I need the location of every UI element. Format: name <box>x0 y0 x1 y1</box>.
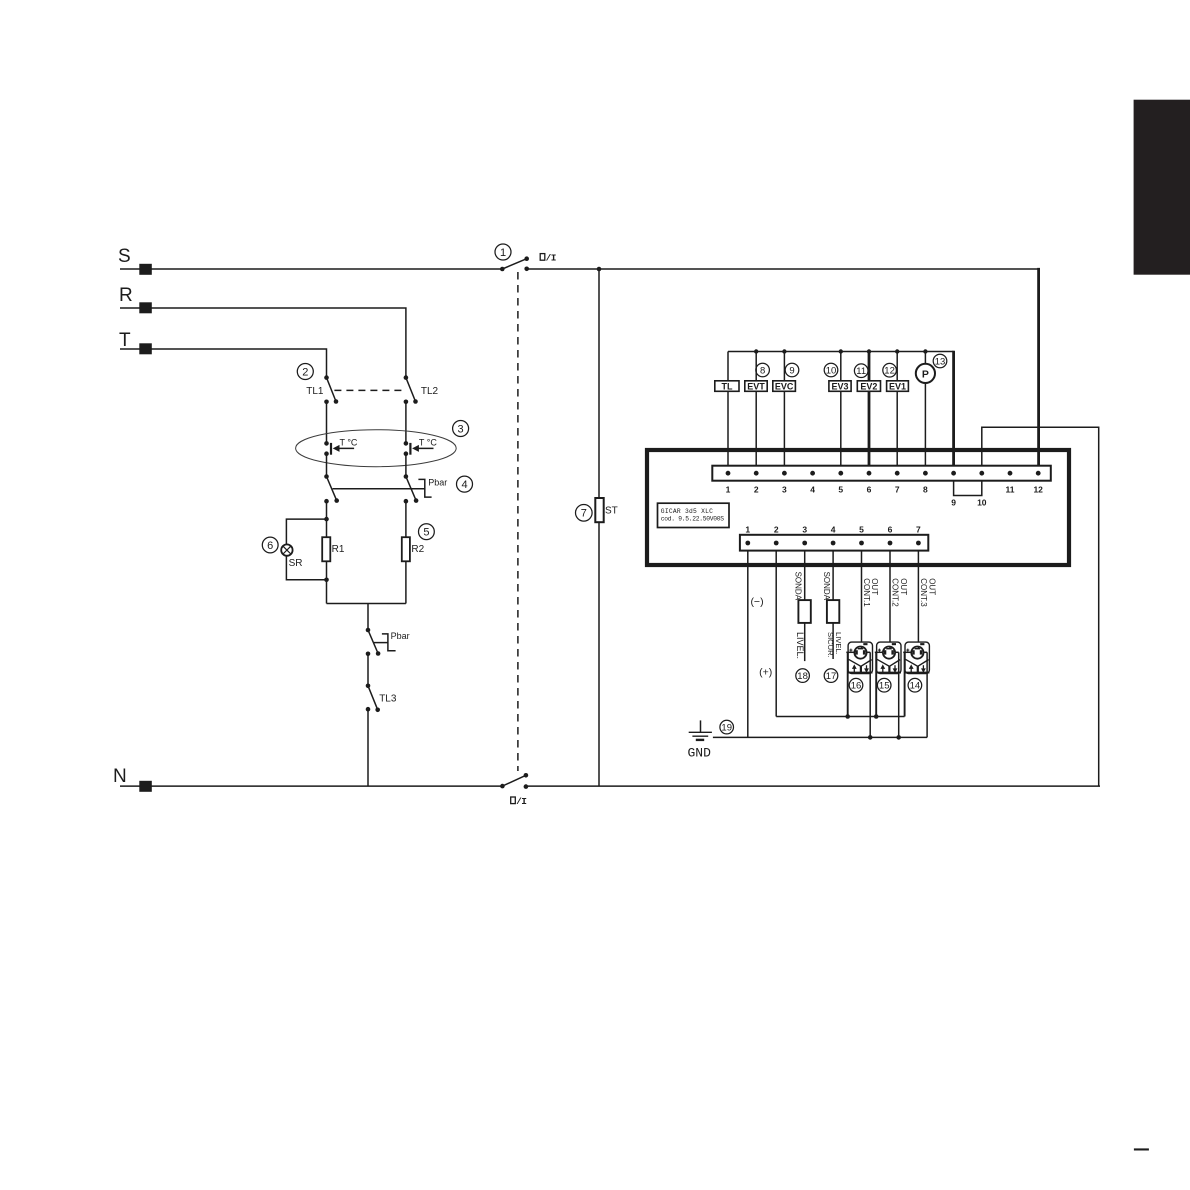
jumper terminals 9-10 <box>954 481 982 496</box>
wire bus end to terminal 9 (bold) <box>952 351 955 466</box>
junction SR tap <box>324 517 329 522</box>
svg-text:6: 6 <box>267 540 273 552</box>
svg-text:GND: GND <box>688 746 712 761</box>
svg-text:1: 1 <box>500 247 506 259</box>
wire valve16 left lead <box>847 652 849 716</box>
switch 0/I top (main switch) <box>500 256 529 271</box>
svg-text:16: 16 <box>851 681 862 692</box>
svg-text:/I: /I <box>516 796 526 807</box>
label LIVEL (rotated) <box>795 632 805 659</box>
label SR <box>289 558 303 569</box>
switch TL3 <box>366 684 380 713</box>
svg-text:3: 3 <box>802 525 807 535</box>
node N <box>113 766 127 787</box>
callout 11 <box>854 364 868 378</box>
callout 6 <box>262 537 278 553</box>
switch Pbar right pole <box>404 474 419 503</box>
wire top bus <box>728 351 954 353</box>
label SONDA 2 (rotated) <box>822 572 831 601</box>
callout 15 <box>877 678 891 692</box>
terminal square S <box>139 264 152 275</box>
svg-text:4: 4 <box>810 485 815 495</box>
component EVC <box>773 381 796 392</box>
callout 8 <box>756 363 770 377</box>
wire SR branch top <box>286 519 326 544</box>
junction EV2 bus <box>867 349 871 353</box>
callout 7 <box>576 505 593 522</box>
wire center tap down <box>367 604 369 631</box>
wire S rail after switch <box>527 268 1039 270</box>
callout 12 <box>883 363 897 377</box>
svg-text:19: 19 <box>721 723 732 734</box>
wire R1 to bottom bus <box>326 561 328 603</box>
wire TL1 to thermostat <box>326 402 328 444</box>
callout 2 <box>297 364 313 380</box>
wire S rail to terminal 12 (bold drop) <box>1037 268 1040 466</box>
component EV3 <box>829 381 851 392</box>
svg-text:14: 14 <box>910 681 921 692</box>
wire EV2 drop (bold) <box>868 352 871 466</box>
wire thermostat left to Pbar <box>326 454 328 477</box>
wire valve14 right lead <box>926 652 928 737</box>
svg-text:(−): (−) <box>750 596 763 608</box>
junction valve16 right on ground line <box>868 735 873 740</box>
wire EV3 drop <box>840 352 842 466</box>
wire S rail <box>120 268 502 270</box>
svg-text:T °C: T °C <box>419 438 437 448</box>
label GND <box>688 746 712 761</box>
label ST <box>605 505 618 516</box>
label TL1 <box>306 386 324 397</box>
svg-text:11: 11 <box>1006 485 1015 495</box>
wire lower terminal 1 to GND line <box>747 551 749 738</box>
svg-text:3: 3 <box>458 423 464 435</box>
svg-text:TL: TL <box>722 382 733 392</box>
svg-text:TL2: TL2 <box>421 386 439 397</box>
wire SR branch bottom <box>286 556 326 580</box>
svg-text:7: 7 <box>895 485 900 495</box>
label Pbar lower <box>391 631 410 641</box>
callout 18 <box>796 669 810 683</box>
wire valve16 right lead <box>869 652 871 737</box>
callout 9 <box>785 363 799 377</box>
fuse ST <box>595 498 603 522</box>
svg-text:8: 8 <box>760 365 765 376</box>
wire T rail <box>120 349 327 378</box>
switch Pbar left pole <box>324 474 339 503</box>
svg-text:Pbar: Pbar <box>428 477 447 487</box>
svg-text:EVT: EVT <box>747 382 765 392</box>
junction valve15 right on ground line <box>896 735 901 740</box>
wire probe LIVEL open end <box>804 623 806 661</box>
svg-text:6: 6 <box>867 485 872 495</box>
label (+) <box>759 667 772 679</box>
svg-text:R1: R1 <box>332 544 345 555</box>
wire EVC drop <box>783 352 785 466</box>
wire lower terminal 2 drop <box>775 551 777 717</box>
wire Pbar left to R1 <box>326 501 328 537</box>
wire lower terminal 4 to probe <box>832 551 834 601</box>
wire N rail right of switch <box>526 785 1100 787</box>
svg-text:4: 4 <box>461 479 467 491</box>
lamp SR <box>281 544 292 555</box>
valve 16 body <box>846 642 872 673</box>
wire Pbar lower to TL3 <box>367 654 369 686</box>
wire probe LIVEL SICUR open end <box>832 623 834 659</box>
wire valve15 right lead <box>898 652 900 737</box>
thermostat contact right T C <box>404 438 438 456</box>
callout 16 <box>849 678 863 692</box>
svg-text:R2: R2 <box>411 544 424 555</box>
switch TL2 <box>404 375 418 404</box>
callout 1 <box>495 244 511 260</box>
svg-text:15: 15 <box>879 681 890 692</box>
callout 13 <box>933 354 947 368</box>
wire lower terminal 7 to valve14 <box>917 551 919 649</box>
node R <box>119 285 133 306</box>
wire ground line (line B) <box>713 736 927 738</box>
switch TL1 <box>324 375 338 404</box>
ground symbol <box>689 720 712 740</box>
wire lower terminal 3 to probe <box>804 551 806 601</box>
label OUT CONT.3 (rotated) <box>919 578 936 607</box>
svg-text:T °C: T °C <box>340 438 358 448</box>
dashed interlock line <box>517 272 519 771</box>
callout 19 <box>720 720 734 734</box>
svg-text:GICAR 3d5 XLC: GICAR 3d5 XLC <box>661 508 713 515</box>
svg-text:ST: ST <box>605 505 618 516</box>
svg-text:Pbar: Pbar <box>391 631 410 641</box>
page dash mark <box>1134 1148 1149 1150</box>
valve 15 body <box>875 642 901 673</box>
wire N rail left of switch <box>120 785 502 787</box>
wire TL3 to N rail <box>367 709 369 786</box>
terminal square N <box>139 781 152 792</box>
svg-text:cod. 9.5.22.50V00S: cod. 9.5.22.50V00S <box>661 516 724 523</box>
terminal strip lower (7 terminals) <box>740 535 928 551</box>
label (-) <box>750 596 763 608</box>
svg-text:R: R <box>119 285 133 306</box>
page tab block (black rectangle) <box>1134 100 1190 275</box>
junction EV3 bus <box>839 349 843 353</box>
label 0/I bottom <box>511 796 527 807</box>
svg-text:S: S <box>118 246 131 267</box>
wire EV1 drop <box>896 352 898 466</box>
junction valve16 left on plus bus <box>845 714 850 719</box>
junction SR bottom <box>324 578 329 583</box>
callout 4 <box>457 476 473 492</box>
label TL2 <box>421 386 439 397</box>
junction EVT bus <box>754 349 758 353</box>
pin numbers upper strip 1-8,11,12 <box>726 485 1044 495</box>
thermostat contact left T C <box>324 438 358 456</box>
svg-text:10: 10 <box>977 498 987 508</box>
svg-text:1: 1 <box>726 485 731 495</box>
label 0/I top <box>540 253 556 264</box>
resistor R1 <box>322 537 330 561</box>
svg-text:EV1: EV1 <box>889 382 906 392</box>
dashed link TL1-TL2 <box>334 389 406 391</box>
wire R2 to bottom bus <box>405 561 407 603</box>
terminal square R <box>139 302 152 313</box>
svg-text:TL3: TL3 <box>379 694 397 705</box>
switch 0/I bottom <box>500 773 528 789</box>
valve 14 body <box>903 642 929 673</box>
wire Pbar right to R2 <box>405 501 407 537</box>
svg-text:5: 5 <box>838 485 843 495</box>
wire P drop <box>924 352 926 466</box>
callout 14 <box>908 678 922 692</box>
svg-text:EV3: EV3 <box>831 382 848 392</box>
label Pbar upper <box>428 477 447 487</box>
switch Pbar lower <box>366 628 381 656</box>
component EVT <box>745 381 767 392</box>
svg-text:SONDA: SONDA <box>793 572 802 601</box>
svg-text:4: 4 <box>831 525 836 535</box>
svg-text:6: 6 <box>888 525 893 535</box>
svg-text:P: P <box>922 369 929 381</box>
svg-text:2: 2 <box>754 485 759 495</box>
wire valve15 left lead <box>875 652 877 716</box>
component P (pump) <box>916 364 935 383</box>
svg-text:11: 11 <box>856 366 866 377</box>
wire EVT drop <box>755 352 757 466</box>
Pbar actuator bracket <box>418 479 431 497</box>
label OUT CONT.2 (rotated) <box>890 578 907 607</box>
mechanical link Pbar <box>333 488 425 490</box>
label R1 <box>332 544 345 555</box>
wire bottom bus <box>327 603 406 605</box>
svg-text:EVC: EVC <box>775 382 794 392</box>
wire lower terminal 5 to valve16 <box>861 551 863 649</box>
pin numbers 9,10 <box>951 498 987 508</box>
svg-text:EV2: EV2 <box>860 382 877 392</box>
junction valve15 left on plus bus <box>874 714 879 719</box>
svg-text:5: 5 <box>423 527 429 539</box>
callout 17 <box>824 669 838 683</box>
svg-text:1: 1 <box>745 525 750 535</box>
label SONDA 1 (rotated) <box>793 572 802 601</box>
wire ST upper <box>598 269 600 498</box>
mechanical link Pbar lower <box>374 642 388 644</box>
svg-text:SONDA: SONDA <box>822 572 831 601</box>
pin numbers lower strip 1-7 <box>745 525 921 535</box>
Pbar lower actuator bracket <box>382 634 396 651</box>
label LIVEL SICUR (rotated) <box>826 632 843 658</box>
svg-text:9: 9 <box>789 365 794 376</box>
svg-text:17: 17 <box>826 671 837 682</box>
node S <box>118 246 131 267</box>
svg-text:SR: SR <box>289 558 303 569</box>
svg-text:12: 12 <box>1033 485 1043 495</box>
component TL <box>715 381 739 392</box>
junction P bus <box>923 349 927 353</box>
wire plus bus (line A) <box>776 716 904 718</box>
svg-text:2: 2 <box>774 525 779 535</box>
node T <box>119 330 131 351</box>
wire lower terminal 6 to valve15 <box>889 551 891 649</box>
callout 10 <box>824 363 838 377</box>
svg-text:7: 7 <box>916 525 921 535</box>
svg-text:13: 13 <box>935 356 946 367</box>
label TL3 <box>379 694 397 705</box>
svg-text:(+): (+) <box>759 667 772 679</box>
callout 5 <box>419 524 435 540</box>
component EV1 <box>887 381 909 392</box>
junction S rail ST tap <box>597 267 602 272</box>
callout 3 <box>453 421 469 437</box>
svg-text:TL1: TL1 <box>306 386 324 397</box>
svg-text:9: 9 <box>951 498 956 508</box>
svg-text:T: T <box>119 330 131 351</box>
label OUT CONT.1 (rotated) <box>862 578 879 607</box>
controller box GICAR outline <box>647 450 1069 565</box>
svg-text:10: 10 <box>826 365 837 376</box>
wire valve14 left lead <box>904 652 906 716</box>
wire TL2 to thermostat <box>405 402 407 444</box>
svg-text:7: 7 <box>581 508 587 520</box>
svg-text:8: 8 <box>923 485 928 495</box>
resistor R2 <box>402 537 410 561</box>
junction EVC bus <box>782 349 786 353</box>
svg-text:LIVEL.SICUR.: LIVEL.SICUR. <box>826 632 843 658</box>
wire thermostat right to Pbar <box>405 454 407 477</box>
terminal square T <box>139 343 152 354</box>
terminal strip upper (12 terminals) <box>712 466 1051 481</box>
junction EV1 bus <box>895 349 899 353</box>
svg-text:5: 5 <box>859 525 864 535</box>
svg-text:/I: /I <box>546 253 556 264</box>
svg-text:N: N <box>113 766 127 787</box>
probe resistor LIVEL <box>798 600 810 623</box>
svg-text:LIVEL.: LIVEL. <box>795 632 805 659</box>
component EV2 <box>857 381 880 392</box>
svg-text:2: 2 <box>302 366 308 378</box>
wire R rail <box>120 308 406 378</box>
label R2 <box>411 544 424 555</box>
svg-text:3: 3 <box>782 485 787 495</box>
label box GICAR <box>658 503 730 527</box>
wire ST lower <box>598 522 600 786</box>
svg-text:18: 18 <box>797 671 808 682</box>
wire terminal 10 return loop to N rail <box>982 427 1099 786</box>
probe resistor LIVEL SICUR <box>827 600 839 623</box>
ellipse group 3 <box>296 430 457 467</box>
wire TL drop <box>727 352 729 466</box>
svg-text:12: 12 <box>884 366 895 377</box>
